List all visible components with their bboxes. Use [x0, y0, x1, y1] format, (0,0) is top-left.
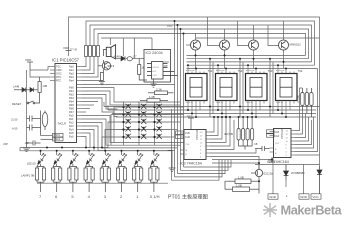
svg-text:VCC: VCC — [164, 61, 169, 64]
pin numbers IC4 inner — [275, 131, 289, 158]
resistor R 1.0B horizontal (bottom) — [228, 175, 259, 183]
wire IC1 top pins to RN1 — [82, 57, 102, 81]
svg-text:Rc0: Rc0 — [69, 114, 74, 118]
svg-text:VCC: VCC — [187, 114, 193, 118]
svg-text:*MCLR: *MCLR — [58, 122, 66, 126]
wire LED row top rail — [36, 150, 172, 152]
LED L1 + resistors — [35, 151, 159, 192]
svg-text:RTC: RTC — [56, 75, 61, 79]
svg-text:VDD: VDD — [25, 58, 32, 62]
svg-text:Ra1: Ra1 — [69, 68, 74, 72]
svg-text:2.2K: 2.2K — [156, 87, 162, 91]
svg-text:Rc6: Rc6 — [69, 135, 74, 139]
svg-text:d c b a e: d c b a e — [186, 70, 195, 72]
svg-text:TS1: TS1 — [208, 69, 213, 73]
wire transistor collector drops — [186, 17, 320, 46]
switch RESET — [12, 96, 40, 106]
power VCC (right of Q7) — [268, 158, 275, 163]
resistor R(Q2 emitter) — [100, 73, 103, 82]
svg-text:IC4 74HC164: IC4 74HC164 — [267, 160, 289, 164]
svg-text:VCC: VCC — [312, 195, 319, 199]
node GND box 1 — [268, 194, 278, 199]
svg-text:TS4: TS4 — [298, 69, 303, 73]
wire mid-bottom bus — [212, 158, 272, 164]
svg-text:Rc5: Rc5 — [69, 131, 74, 135]
ground (left bottom) — [23, 143, 30, 152]
capacitor C (oval) — [127, 55, 137, 61]
svg-text:OSC1: OSC1 — [54, 134, 61, 137]
svg-text:CLB: CLB — [275, 131, 280, 134]
svg-text:4148: 4148 — [114, 55, 121, 59]
diode D 4148 — [114, 55, 126, 61]
capacitor C3 — [11, 116, 41, 122]
svg-text:Ra2: Ra2 — [69, 72, 74, 76]
transistor Q6 MN9012 — [279, 40, 302, 50]
capacitor C8 (left of IC4) — [254, 142, 270, 151]
svg-text:CLK: CLK — [275, 143, 280, 145]
pins IC3 — [180, 132, 210, 157]
pins IC1 right — [77, 67, 82, 137]
svg-text:GND: GND — [269, 195, 277, 199]
svg-text:1K: 1K — [142, 66, 146, 70]
pin numbers IC3 inner — [186, 132, 204, 159]
svg-text:Rb1: Rb1 — [69, 89, 74, 93]
pin labels IC4 — [275, 128, 285, 139]
wire left rail — [27, 67, 51, 144]
resistor network R4x (ovals) — [224, 117, 254, 150]
svg-text:10B: 10B — [43, 84, 48, 88]
wire VDD rail to diode row — [116, 58, 145, 60]
display DS3 — [246, 74, 268, 101]
svg-text:C7: C7 — [133, 55, 137, 59]
op IC1 PIC16C57 — [52, 58, 80, 143]
wire bus above displays — [187, 55, 318, 68]
junction dots LED rail — [40, 147, 155, 152]
op IC3 74HC164 — [180, 130, 206, 166]
wire keypad rows to left bundle — [102, 107, 184, 151]
transistor Q3 — [191, 40, 201, 50]
svg-text:Rc1: Rc1 — [69, 117, 74, 121]
svg-text:Rb0: Rb0 — [69, 86, 74, 90]
text bottom numbers — [39, 194, 160, 199]
capacitor C5 15P — [25, 141, 41, 146]
power VDD — [63, 46, 72, 51]
svg-text:LA48: LA48 — [13, 85, 20, 89]
diode D5 2CDB808F — [284, 165, 306, 181]
svg-text:P1 8R: P1 8R — [297, 95, 301, 102]
junction dots bottom — [258, 159, 273, 183]
junction dots buses — [187, 54, 287, 118]
svg-text:PT01 主板原理图: PT01 主板原理图 — [168, 193, 208, 201]
svg-text:Ra0: Ra0 — [69, 65, 74, 69]
svg-text:MN9012: MN9012 — [290, 43, 302, 47]
resistor R(2.2K horizontal) — [148, 87, 174, 94]
svg-text:4R(7)B: 4R(7)B — [224, 132, 233, 136]
svg-text:J3P: J3P — [3, 142, 8, 146]
node VCC box — [311, 194, 321, 199]
wire top bus lines — [69, 17, 320, 166]
svg-text:Rb7: Rb7 — [69, 110, 74, 114]
svg-text:CLK: CLK — [152, 75, 157, 77]
junction dots top bus drops — [174, 20, 185, 35]
pin labels IC1 left — [56, 65, 66, 126]
power VDD (left rail) — [25, 58, 33, 70]
svg-text:TS3: TS3 — [268, 69, 273, 73]
wire display pin drops — [188, 65, 290, 117]
capacitor C4 — [12, 125, 41, 131]
svg-text:1.0B: 1.0B — [149, 95, 155, 99]
transistor Q2 9013 — [98, 60, 115, 73]
svg-text:T0C: T0C — [56, 65, 61, 69]
svg-text:TS2: TS2 — [238, 69, 243, 73]
diode LED LA48 — [13, 85, 26, 93]
diode D2 (left) — [26, 88, 38, 93]
junction dots R4x top — [213, 116, 253, 118]
display DS2 — [216, 74, 238, 101]
keypad junction dots — [122, 106, 155, 138]
svg-text:Rc4: Rc4 — [69, 128, 74, 132]
svg-text:C8: C8 — [254, 142, 258, 146]
svg-text:Ra4: Ra4 — [69, 79, 74, 83]
svg-text:d c b a e: d c b a e — [246, 70, 255, 72]
resistor network RN1 /8 — [70, 46, 99, 57]
speaker SP1 — [104, 45, 116, 59]
ground (below Q2) — [99, 82, 105, 85]
svg-text:J1/10: J1/10 — [11, 118, 18, 122]
svg-text:VCC: VCC — [167, 24, 173, 28]
node OSC1 box — [53, 133, 64, 137]
wire IC3 right pins up to bus — [210, 117, 259, 170]
svg-text:LAMP1 9B: LAMP1 9B — [21, 174, 35, 178]
ground (below IC2) — [151, 79, 157, 87]
pins DS1 — [186, 70, 204, 104]
display DS4 — [276, 74, 298, 101]
svg-text:RTC: RTC — [56, 79, 61, 83]
resistor R(1.0B horizontal) — [140, 95, 168, 102]
pins DS2 — [216, 70, 234, 104]
transistor Q7 E2113a — [251, 163, 273, 194]
svg-text:0 1/H: 0 1/H — [150, 194, 160, 199]
pin labels IC1 right — [69, 65, 74, 139]
transistor Q5 — [249, 40, 259, 50]
pins IC4 — [270, 131, 296, 156]
svg-text:24C04: 24C04 — [152, 67, 159, 69]
wire top bus mid drops — [175, 21, 184, 177]
pins DS4 — [276, 70, 294, 104]
wire transistor emitters to display bus — [196, 50, 284, 69]
svg-text:WP: WP — [164, 65, 168, 68]
text TS labels — [208, 69, 303, 73]
wire IC1 right pins staircase to bottom bus — [20, 109, 231, 180]
op IC4 74HC164 — [267, 129, 291, 165]
svg-text:d c b a e: d c b a e — [276, 70, 285, 72]
display DS1 — [186, 74, 208, 101]
wire IC1 to keypad nested bundle — [82, 88, 181, 117]
svg-text:CLR: CLR — [275, 135, 280, 138]
resistor R 1.0B (left) — [38, 77, 47, 96]
svg-text:74HC164: 74HC164 — [281, 128, 284, 139]
wire bottom-right drops — [286, 165, 304, 194]
pins DS3 — [246, 70, 264, 104]
svg-text:Rb2: Rb2 — [69, 93, 74, 97]
svg-text:OSC: OSC — [56, 72, 62, 76]
wire IC4 bottom to GND — [255, 158, 320, 194]
wire IC1 long horizontals — [77, 84, 175, 86]
svg-text:Rc3: Rc3 — [69, 124, 74, 128]
svg-text:d c b a e: d c b a e — [216, 70, 225, 72]
wire speaker top rail — [101, 38, 152, 59]
svg-text:Rc2: Rc2 — [69, 121, 74, 125]
svg-text:A/10: A/10 — [12, 127, 18, 131]
node boxes IC4 left — [267, 130, 275, 137]
svg-text:Ra3: Ra3 — [69, 75, 74, 79]
node boxes IC3 left — [176, 131, 184, 138]
svg-text:Rb5: Rb5 — [69, 103, 74, 107]
svg-text:OSC2: OSC2 — [54, 138, 61, 141]
svg-text:MakerBeta: MakerBeta — [281, 203, 343, 218]
wire IC4 right pins up — [295, 69, 320, 156]
svg-text:74HC164: 74HC164 — [196, 129, 199, 140]
op IC2 24C04 outer box — [144, 50, 171, 83]
svg-text:Rb4: Rb4 — [69, 100, 74, 104]
wire bus below displays — [104, 102, 320, 117]
svg-text:*** /8: *** /8 — [70, 48, 77, 52]
keypad diodes — [126, 104, 162, 139]
svg-text:GND: GND — [300, 195, 308, 199]
power VCC (above IC3) — [187, 114, 194, 130]
op IC2 inner chip — [147, 61, 178, 79]
svg-text:CLB: CLB — [185, 132, 190, 135]
svg-text:1.0B: 1.0B — [238, 175, 244, 179]
pin labels IC3 — [185, 129, 199, 140]
keypad diode matrix — [118, 102, 171, 141]
svg-text:RESET: RESET — [12, 102, 22, 106]
resistor R 10B horizontal (bottom) — [225, 181, 259, 191]
svg-text:Rb6: Rb6 — [69, 107, 74, 111]
diode D6 — [317, 166, 322, 194]
resistor network P1 8R — [297, 88, 314, 117]
svg-text:E2113a: E2113a — [264, 172, 274, 176]
svg-text:LED10: LED10 — [27, 162, 36, 166]
node GND box 2 — [299, 194, 309, 199]
resistor R(IC2 left) — [138, 59, 147, 81]
svg-text:2CDB808F: 2CDB808F — [291, 171, 305, 175]
svg-text:9013: 9013 — [108, 64, 115, 68]
crystal Y1 — [41, 111, 53, 140]
svg-text:CLR: CLR — [185, 136, 190, 139]
svg-text:IC1 PIC16C57: IC1 PIC16C57 — [52, 58, 80, 63]
pins IC1 left — [50, 67, 55, 81]
svg-text:IC2 24C04: IC2 24C04 — [146, 51, 163, 55]
logo MakerBeta star — [263, 203, 277, 217]
wire gap verticals between displays — [210, 59, 273, 117]
svg-text:CLK: CLK — [186, 144, 191, 146]
ground (right of lamp row) — [168, 151, 176, 172]
node OSC2 box — [53, 137, 64, 141]
svg-text:Rb3: Rb3 — [69, 96, 74, 100]
svg-text:VDD: VDD — [63, 46, 70, 50]
transistor Q4 — [220, 40, 230, 50]
wire lamp common line — [37, 182, 168, 184]
svg-text:VDD: VDD — [56, 68, 62, 72]
svg-text:1.0B: 1.0B — [236, 183, 242, 187]
